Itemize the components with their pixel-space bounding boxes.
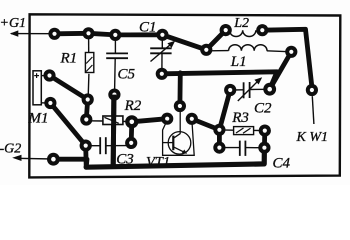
svg-text:C5: C5 <box>118 67 136 83</box>
svg-text:C2: C2 <box>254 101 272 117</box>
svg-text:K W1: K W1 <box>296 130 329 145</box>
svg-text:R2: R2 <box>124 98 142 114</box>
svg-text:C4: C4 <box>273 156 291 172</box>
svg-text:-G2: -G2 <box>0 142 21 157</box>
svg-text:L1: L1 <box>230 54 247 70</box>
svg-text:R3: R3 <box>231 110 249 126</box>
svg-text:L2: L2 <box>233 16 249 31</box>
svg-text:C3: C3 <box>116 152 134 168</box>
svg-text:+G1: +G1 <box>0 16 26 31</box>
svg-text:M1: M1 <box>28 111 49 127</box>
svg-text:VT1: VT1 <box>146 154 170 170</box>
svg-text:C1: C1 <box>139 20 157 36</box>
svg-text:R1: R1 <box>60 51 78 67</box>
